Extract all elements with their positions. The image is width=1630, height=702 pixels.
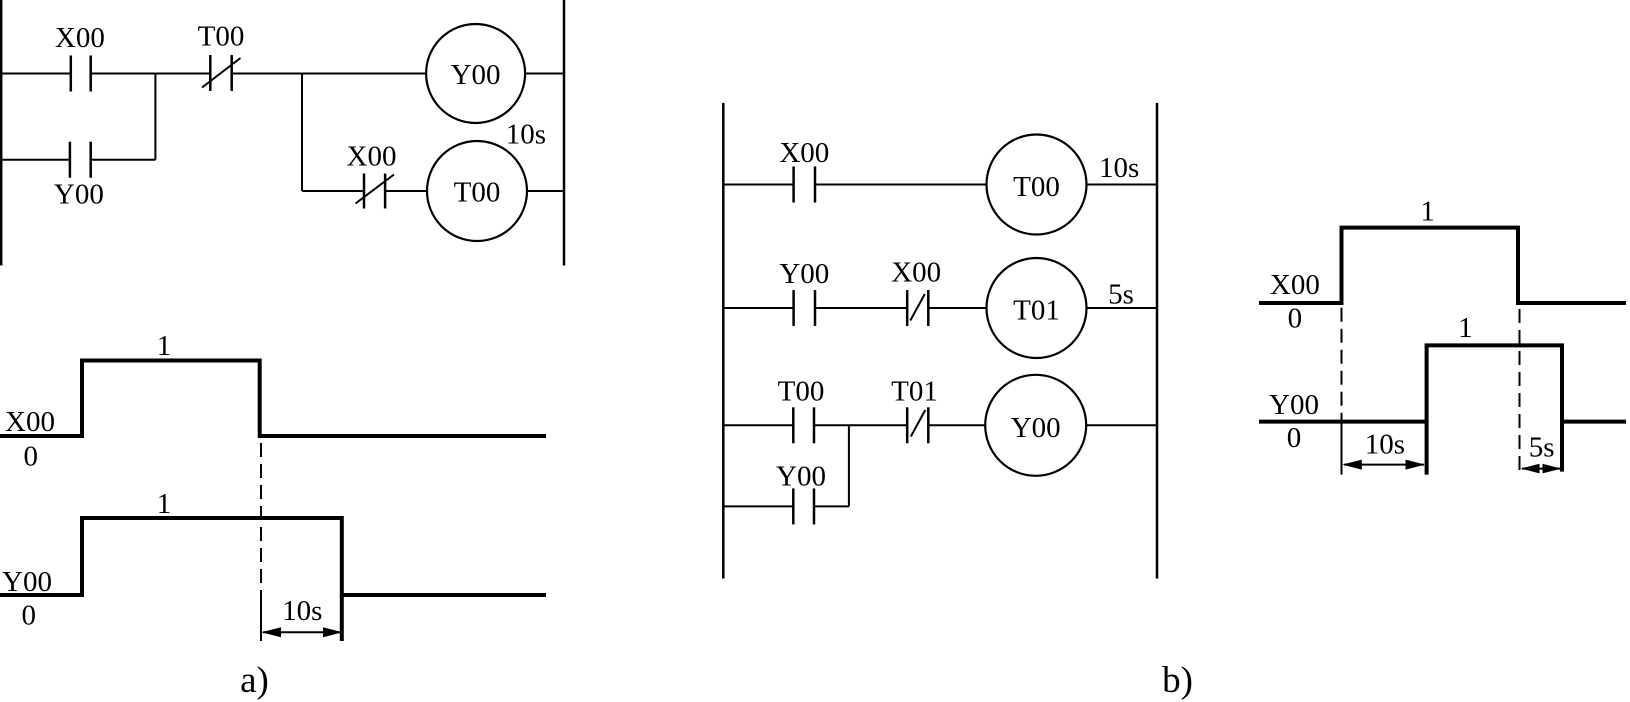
wire coil T00 to right rail (b) bbox=[1087, 184, 1158, 186]
wire rung1 left segment (b) bbox=[724, 184, 794, 186]
svg-text:T01: T01 bbox=[1013, 295, 1060, 327]
svg-text:10s: 10s bbox=[282, 595, 322, 627]
Y00 falling edge extension bbox=[340, 595, 344, 641]
svg-text:10s: 10s bbox=[506, 118, 546, 150]
svg-text:0: 0 bbox=[1287, 422, 1302, 454]
coil T00 bbox=[427, 141, 527, 241]
wire rung2 left segment bbox=[2, 159, 70, 161]
wire rung2 middle segment (b) bbox=[815, 307, 907, 309]
contact X00 (NO) rung1 (b) bbox=[794, 167, 815, 203]
wire coil Y00 to right rail (b) bbox=[1086, 424, 1157, 426]
dimension arrow 10s (b) bbox=[1342, 460, 1425, 470]
svg-text:Y00: Y00 bbox=[1011, 412, 1061, 444]
Y00 waveform bbox=[0, 518, 546, 595]
contact X00 (NC) coil rung bbox=[356, 174, 395, 209]
wire branch rung left segment (b) bbox=[724, 505, 793, 507]
svg-text:10s: 10s bbox=[1099, 152, 1139, 184]
svg-text:5s: 5s bbox=[1529, 432, 1555, 464]
svg-text:Y00: Y00 bbox=[779, 258, 829, 290]
dashed line at X00 rising edge (b) bbox=[1341, 308, 1343, 421]
contact Y00 (NO) rung2 bbox=[70, 142, 91, 178]
svg-text:X00: X00 bbox=[5, 406, 55, 438]
node junction rung3 to branch (b) bbox=[848, 425, 850, 506]
node junction rung1 to coil branch bbox=[301, 74, 303, 192]
svg-text:Y00: Y00 bbox=[54, 178, 104, 210]
Y00 falling edge extension (b) bbox=[1560, 422, 1564, 472]
wire rung1 to coil T00 (b) bbox=[815, 184, 987, 186]
svg-text:X00: X00 bbox=[779, 137, 829, 169]
wire coil rung left segment bbox=[302, 190, 364, 192]
svg-text:X00: X00 bbox=[347, 141, 397, 173]
Y00 waveform (b) bbox=[1259, 345, 1626, 421]
svg-text:T00: T00 bbox=[198, 21, 245, 53]
X00 waveform (b) bbox=[1259, 228, 1626, 303]
node junction rung1 to rung2 branch bbox=[154, 74, 156, 160]
wire rung1 to coil Y00 bbox=[232, 73, 427, 75]
wire rung3 middle segment (b) bbox=[814, 424, 907, 426]
Y00 rising edge extension (b) bbox=[1425, 422, 1429, 475]
svg-text:a): a) bbox=[240, 660, 269, 701]
svg-text:Y00: Y00 bbox=[1269, 389, 1319, 421]
wire coil T01 to right rail (b) bbox=[1087, 307, 1158, 309]
wire coil T00 to right rail bbox=[527, 190, 565, 192]
wire rung1 middle segment bbox=[91, 73, 211, 75]
svg-text:1: 1 bbox=[1420, 196, 1435, 228]
svg-text:T00: T00 bbox=[1013, 171, 1060, 203]
wire contact to coil T00 bbox=[385, 190, 427, 192]
svg-text:Y00: Y00 bbox=[2, 566, 52, 598]
svg-text:T00: T00 bbox=[454, 177, 501, 209]
left power rail (b) bbox=[722, 103, 725, 579]
contact T00 (NC) rung1 bbox=[202, 55, 241, 91]
X00 waveform bbox=[0, 361, 546, 437]
dashed line at X00 falling edge (b) bbox=[1519, 309, 1521, 472]
svg-text:0: 0 bbox=[24, 441, 39, 473]
svg-text:1: 1 bbox=[157, 330, 172, 362]
wire rung3 left segment (b) bbox=[724, 424, 793, 426]
coil T01 (b) bbox=[987, 258, 1087, 358]
coil Y00 (b) bbox=[985, 375, 1086, 476]
svg-text:10s: 10s bbox=[1365, 428, 1405, 460]
coil Y00 bbox=[426, 24, 525, 123]
contact T01 (NC) rung3 (b) bbox=[907, 407, 928, 443]
svg-text:5s: 5s bbox=[1108, 279, 1134, 311]
right power rail (b) bbox=[1156, 103, 1159, 579]
svg-text:X00: X00 bbox=[891, 256, 941, 288]
svg-text:Y00: Y00 bbox=[776, 461, 826, 493]
contact X00 (NO) rung1 bbox=[71, 56, 91, 92]
contact Y00 (NO) rung2 (b) bbox=[794, 290, 815, 326]
contact T00 (NO) rung3 (b) bbox=[793, 407, 814, 443]
svg-text:0: 0 bbox=[1288, 302, 1303, 334]
wire rung2 right segment bbox=[91, 159, 156, 161]
svg-text:b): b) bbox=[1162, 660, 1193, 701]
dashed line at X00 falling edge bbox=[260, 443, 262, 595]
wire branch rung right segment (b) bbox=[814, 505, 849, 507]
coil T00 (b) bbox=[987, 135, 1087, 235]
contact X00 (NC) rung2 (b) bbox=[907, 290, 928, 326]
wire rung2 to coil T01 (b) bbox=[928, 307, 986, 309]
svg-text:1: 1 bbox=[1458, 312, 1473, 344]
svg-text:Y00: Y00 bbox=[451, 59, 501, 91]
svg-text:T01: T01 bbox=[891, 375, 938, 407]
left power rail (a) bbox=[0, 0, 2, 266]
wire rung3 to coil Y00 (b) bbox=[928, 424, 985, 426]
wire coil Y00 to right rail bbox=[525, 73, 565, 75]
wire rung1 left segment bbox=[2, 73, 71, 75]
dimension arrow 10s bbox=[262, 627, 343, 637]
svg-text:0: 0 bbox=[22, 599, 37, 631]
svg-text:T00: T00 bbox=[778, 375, 825, 407]
dimension arrow 5s (b) bbox=[1521, 464, 1561, 474]
right power rail (a) bbox=[563, 0, 566, 266]
svg-text:X00: X00 bbox=[1270, 269, 1320, 301]
svg-text:X00: X00 bbox=[55, 22, 105, 54]
wire rung2 left segment (b) bbox=[724, 307, 794, 309]
contact Y00 (NO) branch (b) bbox=[793, 488, 814, 524]
svg-text:1: 1 bbox=[157, 488, 172, 520]
